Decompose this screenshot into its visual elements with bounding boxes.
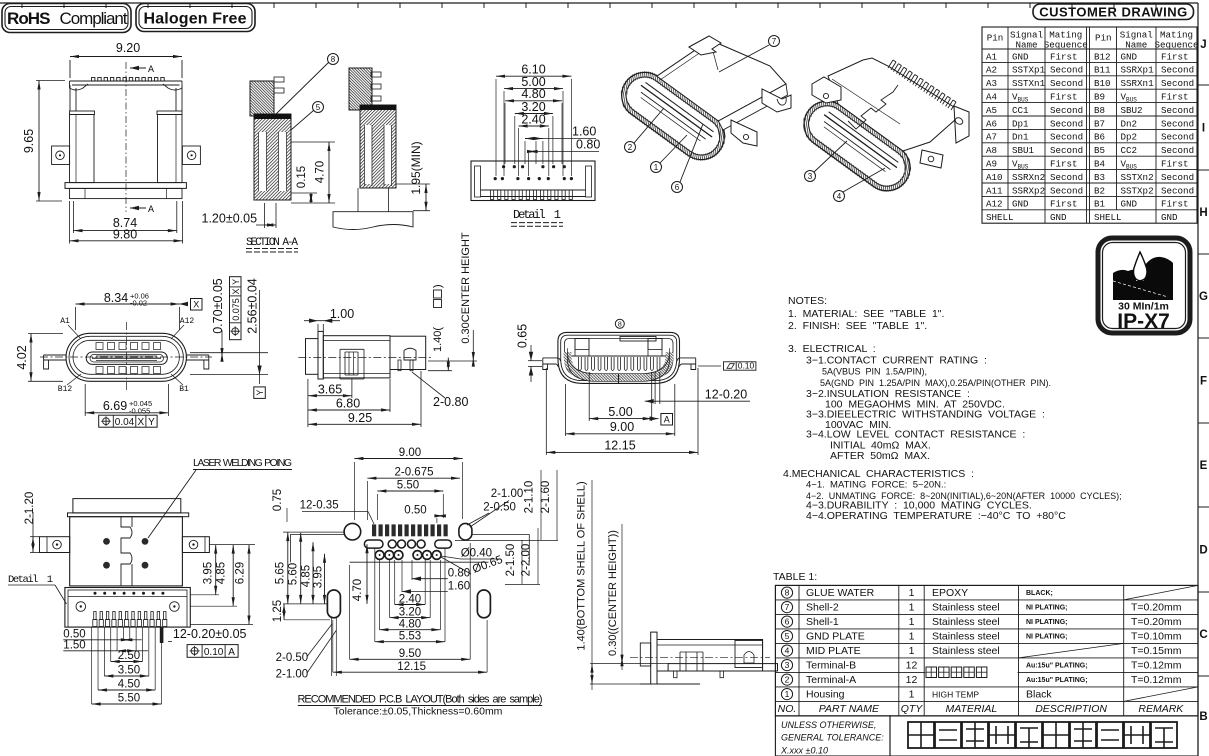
svg-text:4.MECHANICAL CHARACTERISTICS: 4.MECHANICAL CHARACTERISTICS :	[783, 468, 974, 480]
svg-text:B: B	[1199, 711, 1207, 723]
svg-text:Second: Second	[1161, 118, 1194, 129]
svg-text:SBU2: SBU2	[1121, 105, 1143, 116]
svg-text:Terminal-B: Terminal-B	[806, 660, 856, 672]
svg-text:Au:15u" PLATING;: Au:15u" PLATING;	[1026, 663, 1088, 670]
svg-text:IP-X7: IP-X7	[1117, 310, 1170, 333]
svg-text:First: First	[1161, 199, 1189, 210]
svg-text:4.85: 4.85	[301, 565, 313, 587]
svg-text:Second: Second	[1050, 78, 1083, 89]
tolerance block	[775, 716, 890, 756]
svg-text:CC2: CC2	[1121, 145, 1138, 156]
SECTION A-A label	[246, 237, 298, 252]
svg-text:Dn2: Dn2	[1121, 118, 1138, 129]
svg-text:DESCRIPTION: DESCRIPTION	[1035, 703, 1107, 715]
svg-text:First: First	[1161, 159, 1189, 170]
laser welding label	[148, 457, 292, 538]
svg-text:SSTXn2: SSTXn2	[1121, 172, 1154, 183]
svg-text:Second: Second	[1050, 132, 1083, 143]
svg-text:12.15: 12.15	[604, 438, 635, 452]
svg-text:2.50: 2.50	[118, 650, 140, 662]
svg-text:0.70±0.05: 0.70±0.05	[211, 278, 225, 334]
svg-text:5A(GND PIN 1.25A/PIN MAX),0: 5A(GND PIN 1.25A/PIN MAX),0.25A/PIN(OTHE…	[820, 378, 1051, 388]
svg-text:Second: Second	[1161, 185, 1194, 196]
svg-text:12-0.20±0.05: 12-0.20±0.05	[173, 627, 247, 641]
svg-text:SECTION A-A: SECTION A-A	[246, 237, 298, 249]
svg-text:B5: B5	[1094, 145, 1105, 156]
svg-text:TABLE 1:: TABLE 1:	[773, 571, 817, 583]
svg-text:QTY: QTY	[901, 703, 924, 715]
front view (top-left) of connector	[22, 41, 200, 244]
svg-text:7: 7	[772, 37, 777, 46]
drawing frame right border with zone letters	[1198, 3, 1209, 756]
svg-text:6.80: 6.80	[336, 397, 360, 411]
svg-text:SSTXn1: SSTXn1	[1012, 78, 1046, 89]
svg-text:8: 8	[331, 55, 336, 64]
svg-text:2: 2	[628, 143, 633, 152]
svg-text:T=0.12mm: T=0.12mm	[1131, 660, 1182, 672]
svg-text:6: 6	[785, 617, 790, 627]
svg-text:9.20: 9.20	[116, 41, 140, 55]
svg-text:SHELL: SHELL	[986, 212, 1014, 223]
svg-text:REMARK: REMARK	[1138, 703, 1184, 715]
svg-text:SSRXp2: SSRXp2	[1012, 185, 1045, 196]
drawing frame top border	[0, 3, 1198, 8]
svg-text:1: 1	[785, 689, 790, 699]
svg-text:6.69: 6.69	[103, 399, 127, 413]
svg-text:H: H	[1199, 207, 1207, 219]
IP-X7 waterproof logo	[1098, 238, 1190, 333]
svg-text:1: 1	[909, 645, 915, 657]
svg-text:Second: Second	[1050, 105, 1083, 116]
svg-text:9.50: 9.50	[399, 648, 421, 660]
svg-text:12: 12	[906, 674, 918, 686]
svg-text:X: X	[231, 288, 241, 294]
isometric view left (3D)	[613, 36, 791, 169]
svg-text:4.50: 4.50	[118, 679, 140, 691]
Detail 1 label	[511, 208, 563, 226]
svg-text:0.04: 0.04	[115, 417, 135, 428]
dim 12-0.20±0.05 + position tol	[168, 627, 247, 658]
svg-text:1: 1	[654, 163, 659, 172]
svg-text:3.65: 3.65	[318, 383, 342, 397]
svg-text:0.80: 0.80	[448, 568, 470, 580]
callout 8 (small)	[615, 319, 624, 328]
svg-text:Pin: Pin	[987, 33, 1004, 44]
svg-text:9.25: 9.25	[348, 411, 372, 425]
svg-text:1.95(MIN): 1.95(MIN)	[409, 141, 423, 194]
svg-text:A1: A1	[986, 51, 998, 62]
svg-text:B9: B9	[1094, 92, 1105, 103]
svg-text:B12: B12	[58, 385, 73, 394]
svg-text:A7: A7	[986, 132, 997, 143]
svg-text:Second: Second	[1161, 78, 1194, 89]
svg-text:RoHS: RoHS	[7, 9, 51, 28]
svg-text:5.50: 5.50	[397, 480, 419, 492]
svg-text:0.10: 0.10	[204, 647, 224, 658]
svg-text:5.65: 5.65	[275, 562, 287, 584]
CUSTOMER DRAWING title box	[1033, 4, 1194, 20]
svg-text:D: D	[1199, 545, 1207, 557]
svg-text:UNLESS OTHERWISE,: UNLESS OTHERWISE,	[781, 720, 876, 730]
svg-text:1.40(BOTTOM SHELL OF SHELL): 1.40(BOTTOM SHELL OF SHELL)	[576, 481, 588, 650]
svg-text:5.00: 5.00	[608, 405, 632, 419]
svg-text:A1: A1	[60, 317, 70, 326]
svg-text:SSRXn1: SSRXn1	[1121, 78, 1155, 89]
svg-text:Second: Second	[1161, 145, 1194, 156]
svg-text:4.02: 4.02	[15, 345, 29, 369]
svg-text:Detail 1: Detail 1	[513, 208, 561, 222]
svg-text:B8: B8	[1094, 105, 1105, 116]
svg-text:SHELL: SHELL	[1094, 212, 1122, 223]
svg-text:NI PLATING;: NI PLATING;	[1026, 619, 1067, 626]
svg-text:First: First	[1050, 159, 1078, 170]
sink mount side view	[576, 480, 778, 690]
dims 5.00 / 9.00 / 12.15 with datum A	[546, 368, 698, 455]
svg-text:Detail 1: Detail 1	[8, 574, 53, 586]
svg-text:G: G	[1199, 291, 1208, 303]
svg-text:Stainless steel: Stainless steel	[932, 616, 1000, 628]
front view of receptacle (middle)	[543, 332, 696, 383]
PCB layout dimension texts	[272, 447, 558, 680]
svg-text:5.60: 5.60	[288, 563, 300, 585]
svg-text:MID PLATE: MID PLATE	[806, 645, 861, 657]
dim 12-0.20	[645, 372, 750, 404]
svg-text:Stainless steel: Stainless steel	[932, 602, 1000, 614]
svg-text:B1: B1	[179, 385, 189, 394]
svg-text:GND: GND	[1121, 199, 1138, 210]
recommended PCB layout pads	[290, 523, 529, 617]
svg-text:9.00: 9.00	[399, 447, 421, 459]
TABLE 1 parts list	[773, 571, 1198, 716]
svg-text:9.00: 9.00	[610, 420, 634, 434]
svg-text:0.075: 0.075	[231, 298, 241, 321]
svg-text:CC1: CC1	[1012, 105, 1029, 116]
svg-text:4.80: 4.80	[399, 619, 421, 631]
svg-text:3−1.CONTACT CURRENT RATING: 3−1.CONTACT CURRENT RATING :	[806, 355, 987, 367]
svg-text:4.70: 4.70	[352, 579, 364, 601]
svg-text:Second: Second	[1161, 172, 1194, 183]
svg-text:X: X	[193, 300, 199, 310]
svg-text:6.29: 6.29	[235, 562, 247, 584]
svg-text:0.30CENTER HEIGHT: 0.30CENTER HEIGHT	[460, 232, 472, 344]
svg-text:GENERAL TOLERANCE:: GENERAL TOLERANCE:	[781, 733, 884, 743]
svg-text:T=0.20mm: T=0.20mm	[1131, 616, 1182, 628]
svg-text:GND PLATE: GND PLATE	[806, 631, 865, 643]
svg-text:): )	[432, 284, 444, 288]
svg-text:4−4.OPERATING TEMPERATURE :−: 4−4.OPERATING TEMPERATURE :−40°C TO +80°…	[806, 510, 1066, 522]
svg-text:Housing: Housing	[806, 689, 845, 701]
svg-text:RECOMMENDED P.C.B LAYOUT(Bot: RECOMMENDED P.C.B LAYOUT(Both sides are …	[298, 694, 543, 706]
pin pitch dim stack 0.50..5.50	[63, 627, 161, 706]
svg-text:4−1. MATING FORCE: 5~20N.:: 4−1. MATING FORCE: 5~20N.:	[806, 480, 946, 491]
dim 4.02	[15, 334, 63, 382]
svg-text:NI PLATING;: NI PLATING;	[1026, 634, 1067, 641]
svg-text:PART NAME: PART NAME	[819, 703, 880, 715]
svg-text:First: First	[1161, 51, 1189, 62]
svg-text:Pin: Pin	[1095, 33, 1112, 44]
svg-text:B7: B7	[1094, 118, 1105, 129]
svg-text:3.95: 3.95	[203, 562, 215, 584]
svg-text:6: 6	[675, 183, 680, 192]
svg-text:Terminal-A: Terminal-A	[806, 674, 856, 686]
svg-text:B10: B10	[1094, 78, 1111, 89]
callout 5 gnd plate	[291, 102, 324, 131]
svg-text:2-0.50: 2-0.50	[276, 652, 309, 664]
svg-text:1.20±0.05: 1.20±0.05	[202, 212, 258, 226]
svg-text:0.50: 0.50	[404, 505, 426, 517]
svg-text:B12: B12	[1094, 51, 1111, 62]
svg-text:Au:15u" PLATING;: Au:15u" PLATING;	[1026, 677, 1088, 684]
svg-text:Sequence: Sequence	[1044, 40, 1088, 51]
section A-A dims 0.15 / 4.70	[291, 142, 335, 203]
dims 0.70±0.05, 0.075 XY box, 2.56±0.04 (rotated)	[190, 277, 268, 399]
svg-text:8.34: 8.34	[104, 291, 128, 305]
svg-text:B6: B6	[1094, 132, 1105, 143]
svg-text:GND: GND	[1012, 51, 1029, 62]
svg-text:HIGH TEMP: HIGH TEMP	[932, 690, 979, 700]
svg-text:Second: Second	[1161, 65, 1194, 76]
svg-text:A: A	[148, 205, 154, 216]
svg-text:5.50: 5.50	[118, 693, 140, 705]
svg-text:3: 3	[785, 660, 790, 670]
callout 1 housing	[651, 135, 688, 173]
svg-text:Compliant: Compliant	[60, 9, 128, 28]
svg-text:BLACK;: BLACK;	[1026, 590, 1053, 597]
svg-text:3: 3	[808, 172, 813, 181]
svg-text:First: First	[1161, 92, 1189, 103]
svg-text:2-1.60: 2-1.60	[540, 481, 552, 514]
svg-text:Second: Second	[1050, 145, 1083, 156]
svg-text:1.50: 1.50	[63, 639, 85, 651]
svg-text:12-0.20: 12-0.20	[705, 388, 747, 402]
svg-text:J: J	[1200, 39, 1206, 51]
svg-text:2.56±0.04: 2.56±0.04	[246, 278, 260, 334]
svg-text:2-1.20: 2-1.20	[24, 492, 36, 525]
callout 8 glue water	[276, 54, 339, 115]
svg-text:A4: A4	[986, 92, 998, 103]
svg-text:NO.: NO.	[778, 703, 797, 715]
svg-text:Dn1: Dn1	[1012, 132, 1029, 143]
svg-text:A9: A9	[986, 159, 997, 170]
dim 2-1.20	[24, 492, 40, 553]
svg-text:5.53: 5.53	[399, 631, 421, 643]
svg-text:3. ELECTRICAL :: 3. ELECTRICAL :	[788, 343, 876, 355]
svg-text:1: 1	[909, 602, 915, 614]
svg-text:T=0.20mm: T=0.20mm	[1131, 602, 1182, 614]
svg-text:12-0.35: 12-0.35	[300, 500, 339, 512]
svg-text:F: F	[1200, 376, 1207, 388]
svg-text:B1: B1	[1094, 199, 1106, 210]
svg-text:Dp2: Dp2	[1121, 132, 1138, 143]
svg-text:NOTES:: NOTES:	[788, 295, 827, 307]
svg-text:A5: A5	[986, 105, 997, 116]
svg-text:1: 1	[909, 616, 915, 628]
svg-text:3.50: 3.50	[118, 665, 140, 677]
svg-text:8: 8	[785, 588, 790, 598]
Detail 1 label lower	[8, 574, 67, 604]
svg-text:Second: Second	[1050, 172, 1083, 183]
svg-text:SSTXp2: SSTXp2	[1121, 185, 1154, 196]
svg-text:9.65: 9.65	[22, 129, 36, 153]
svg-text:A10: A10	[986, 172, 1003, 183]
svg-text:NI PLATING;: NI PLATING;	[1026, 605, 1067, 612]
svg-text:Dp1: Dp1	[1012, 118, 1029, 129]
svg-text:E: E	[1200, 460, 1208, 472]
svg-text:T=0.12mm: T=0.12mm	[1131, 674, 1182, 686]
svg-text:T=0.15mm: T=0.15mm	[1131, 645, 1182, 657]
svg-text:Second: Second	[1050, 185, 1083, 196]
svg-text:SSRXp1: SSRXp1	[1121, 65, 1155, 76]
svg-text:Y: Y	[231, 279, 241, 285]
svg-text:9.80: 9.80	[113, 228, 137, 242]
svg-text:12.15: 12.15	[397, 661, 426, 673]
svg-text:X: X	[137, 417, 144, 428]
svg-text:Y: Y	[255, 390, 265, 396]
svg-text:A11: A11	[986, 185, 1003, 196]
svg-text:2: 2	[785, 675, 790, 685]
svg-text:Y: Y	[148, 417, 155, 428]
svg-text:0.80: 0.80	[576, 138, 600, 152]
svg-text:GND: GND	[1050, 212, 1067, 223]
callout 7 shell-2	[719, 36, 780, 73]
svg-text:EPOXY: EPOXY	[932, 587, 968, 599]
svg-text:Sequence: Sequence	[1154, 40, 1198, 51]
svg-text:SSTXp1: SSTXp1	[1012, 65, 1046, 76]
svg-text:1.40(: 1.40(	[432, 327, 444, 352]
side view dims	[304, 232, 477, 427]
svg-text:2.40: 2.40	[521, 112, 545, 126]
svg-text:CUSTOMER DRAWING: CUSTOMER DRAWING	[1039, 5, 1188, 20]
pin assignment table	[982, 27, 1199, 223]
callout 6 shell-1	[672, 124, 704, 193]
svg-text:GND: GND	[1161, 212, 1178, 223]
svg-text:0.30((CENTER HEIGHT)): 0.30((CENTER HEIGHT))	[607, 530, 619, 656]
svg-text:Tolerance:±0.05,Thickness=0.60: Tolerance:±0.05,Thickness=0.60mm	[334, 706, 503, 718]
svg-text:2-1.00: 2-1.00	[276, 668, 309, 680]
svg-text:Second: Second	[1161, 105, 1194, 116]
svg-text:First: First	[1050, 199, 1078, 210]
company name block (CJK glyphs)	[890, 716, 1198, 756]
callout 4 mid plate	[834, 168, 886, 202]
svg-text:1.25: 1.25	[272, 600, 284, 622]
svg-text:Second: Second	[1050, 65, 1083, 76]
svg-text:4.70: 4.70	[315, 161, 327, 183]
notes text block	[783, 295, 1122, 522]
svg-text:MATERIAL: MATERIAL	[945, 703, 997, 715]
svg-text:4: 4	[837, 192, 842, 201]
svg-text:C: C	[1199, 629, 1207, 641]
bottom view body	[40, 499, 210, 586]
svg-text:Stainless steel: Stainless steel	[932, 645, 1000, 657]
Detail 1 view body	[471, 161, 595, 201]
SECTION A-A cross-section left	[250, 77, 291, 200]
svg-text:Second: Second	[1050, 118, 1083, 129]
callout 2 terminal-A	[625, 108, 665, 153]
svg-text:2-1.10: 2-1.10	[524, 481, 536, 514]
svg-text:Black: Black	[1026, 689, 1052, 701]
svg-text:1.60: 1.60	[572, 125, 596, 139]
svg-text:2-0.80: 2-0.80	[433, 395, 468, 409]
svg-text:0.15: 0.15	[296, 166, 308, 188]
svg-text:2. FINISH: SEE "TABLE 1".: 2. FINISH: SEE "TABLE 1".	[788, 320, 927, 332]
svg-text:1.00: 1.00	[330, 307, 354, 321]
svg-text:1. MATERIAL: SEE "TABLE 1": 1. MATERIAL: SEE "TABLE 1".	[788, 308, 944, 320]
svg-text:2-1.00: 2-1.00	[491, 488, 524, 500]
svg-text:5: 5	[785, 631, 790, 641]
svg-text:1: 1	[909, 587, 915, 599]
svg-text:Shell-2: Shell-2	[806, 602, 839, 614]
svg-text:2-0.675: 2-0.675	[394, 467, 433, 479]
svg-text:5A(VBUS PIN 1.5A/PIN),: 5A(VBUS PIN 1.5A/PIN),	[822, 367, 927, 377]
svg-text:AFTER 50mΩ MAX.: AFTER 50mΩ MAX.	[830, 450, 930, 462]
svg-text:First: First	[1050, 51, 1078, 62]
dim 1.20±0.05	[202, 203, 277, 228]
svg-text:1: 1	[909, 631, 915, 643]
Detail 1 dim stack	[496, 63, 600, 176]
isometric view right (3D)	[795, 58, 969, 200]
svg-text:Halogen Free: Halogen Free	[144, 11, 247, 28]
dim 1.95(MIN)	[396, 141, 430, 210]
right dims 3.95 / 4.85 / 6.29	[190, 545, 255, 625]
svg-text:Second: Second	[1161, 132, 1194, 143]
pcb board sketch under section	[333, 188, 413, 230]
svg-text:0.10: 0.10	[738, 361, 755, 371]
svg-text:A: A	[664, 415, 670, 425]
svg-text:A6: A6	[986, 118, 997, 129]
svg-text:2-0.50: 2-0.50	[483, 502, 516, 514]
svg-text:8: 8	[618, 321, 622, 328]
svg-text:A: A	[148, 65, 154, 76]
svg-text:A3: A3	[986, 78, 997, 89]
svg-text:3.20: 3.20	[399, 607, 421, 619]
svg-text:Shell-1: Shell-1	[806, 616, 839, 628]
svg-text:4.85: 4.85	[216, 562, 228, 584]
svg-text:12: 12	[906, 660, 918, 672]
svg-text:B11: B11	[1094, 65, 1111, 76]
svg-text:SSRXn2: SSRXn2	[1012, 172, 1045, 183]
dim 8.34 with datum X	[76, 291, 203, 330]
svg-text:Stainless steel: Stainless steel	[932, 631, 1000, 643]
svg-text:Name: Name	[1015, 40, 1037, 51]
svg-text:A8: A8	[986, 145, 997, 156]
svg-text:4: 4	[785, 646, 790, 656]
svg-text:B2: B2	[1094, 185, 1105, 196]
svg-text:5: 5	[316, 103, 321, 112]
PCB layout caption	[298, 694, 543, 718]
svg-text:1: 1	[909, 689, 915, 701]
svg-text:7: 7	[785, 602, 790, 612]
dim 6.69 + position tolerance	[85, 384, 168, 428]
side view of connector (middle)	[298, 331, 431, 379]
svg-text:GND: GND	[1012, 199, 1029, 210]
RoHS Compliant badge	[2, 4, 131, 33]
svg-text:B3: B3	[1094, 172, 1105, 183]
svg-text:0.65: 0.65	[516, 324, 530, 348]
svg-text:First: First	[1050, 92, 1078, 103]
svg-text:3.95: 3.95	[313, 566, 325, 588]
svg-text:SBU1: SBU1	[1012, 145, 1035, 156]
svg-text:B4: B4	[1094, 159, 1106, 170]
svg-text:2-1.50: 2-1.50	[505, 544, 517, 577]
svg-text:A12: A12	[180, 317, 195, 326]
svg-text:X.xxx ±0.10: X.xxx ±0.10	[780, 746, 828, 756]
svg-text:A2: A2	[986, 65, 997, 76]
svg-text:A: A	[228, 647, 235, 658]
svg-text:Name: Name	[1125, 40, 1147, 51]
callout 3 terminal-B	[805, 141, 848, 182]
Halogen Free badge	[136, 4, 255, 32]
svg-text:LASER WELDING POING: LASER WELDING POING	[193, 457, 292, 469]
